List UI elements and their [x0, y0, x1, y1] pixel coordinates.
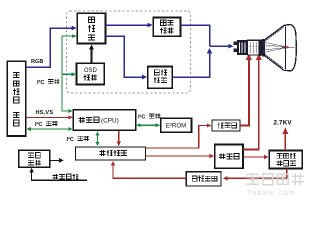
wire horizontal output to HV generator	[243, 155, 269, 159]
wire I2C CPU-E2ROM double arrow	[136, 123, 160, 127]
wire HV generator anode 2.7KV	[283, 127, 289, 150]
svg-text:2.7KV: 2.7KV	[274, 120, 293, 127]
block 预视放 (pre video amp)	[77, 13, 105, 43]
svg-text:(CPU): (CPU)	[101, 117, 119, 124]
CRT picture tube	[233, 24, 296, 70]
wire junction to CRT gun	[210, 44, 234, 49]
svg-text:RGB: RGB	[31, 59, 43, 65]
block 低射控制 (cutoff control)	[148, 66, 173, 88]
dashed container (video board)	[67, 11, 191, 93]
label I2C bus upper	[37, 79, 60, 86]
wire flyback-adjust to oscillator	[111, 161, 186, 179]
label 行频输出 (H-freq output)	[53, 174, 79, 180]
wire pre-amp to cutoff-control	[105, 36, 147, 79]
label 2.7KV	[274, 120, 293, 127]
block 处理器(CPU) (microprocessor)	[73, 110, 135, 130]
wire cutoff-control up to junction	[172, 48, 212, 77]
label I2C bus lower	[67, 136, 90, 143]
wire HS/VS host to CPU	[26, 115, 73, 119]
block 电源电路 (power supply)	[19, 150, 50, 167]
wire video-amp to CRT junction	[181, 25, 210, 46]
svg-text:E²ROM: E²ROM	[166, 123, 187, 130]
svg-text:I²C: I²C	[138, 114, 145, 121]
svg-text:I²C: I²C	[37, 79, 44, 86]
wire hline feedback to power supply	[29, 168, 87, 181]
wire horizontal output to CRT yoke	[243, 53, 262, 149]
wire CPU to oscillator	[117, 131, 121, 147]
block 视频放大 (video amplifier)	[153, 18, 180, 37]
block 信号输入/主机 (signal input host)	[7, 61, 26, 136]
watermark glyphs	[247, 173, 305, 197]
block OSD控制 (OSD control)	[77, 63, 105, 84]
wire OSD to pre-amp	[89, 44, 94, 63]
svg-text:HS,VS: HS,VS	[36, 110, 54, 116]
label I2C bus E2ROM	[138, 114, 161, 121]
wire power supply output arrow	[50, 158, 64, 162]
svg-text:OSD: OSD	[84, 68, 98, 74]
block 场输出 (vertical output)	[212, 120, 240, 131]
svg-text:Tubatu.com: Tubatu.com	[247, 190, 296, 197]
wire pre-amp to video-amp	[105, 23, 152, 28]
block 行场振荡 (H/V oscillator)	[76, 147, 146, 160]
wire RGB from host to pre-amp	[26, 26, 77, 68]
block 高压产生电路 (high voltage generator)	[269, 151, 302, 169]
wire I2C bus vertical	[62, 34, 77, 113]
wire oscillator to vertical output	[146, 123, 212, 148]
block 回扫调整 (flyback adjust)	[186, 172, 221, 186]
label RGB	[31, 59, 43, 65]
wire vertical output to CRT yoke	[240, 53, 252, 125]
svg-text:I²C: I²C	[67, 136, 74, 143]
wire oscillator to horizontal output	[146, 154, 215, 158]
label I2C bus host	[35, 121, 58, 128]
block 行输出 (horizontal output)	[215, 145, 243, 169]
wire HV feedback to flyback-adjust	[223, 169, 287, 181]
svg-text:I²C: I²C	[35, 121, 42, 128]
block E2ROM (EEPROM memory)	[161, 118, 192, 132]
wire I2C CPU-oscillator double arrow	[96, 131, 100, 146]
wire I2C branch to OSD	[62, 72, 76, 76]
wire I2C host-CPU double arrow	[27, 127, 73, 131]
label HS,VS sync	[36, 110, 54, 116]
